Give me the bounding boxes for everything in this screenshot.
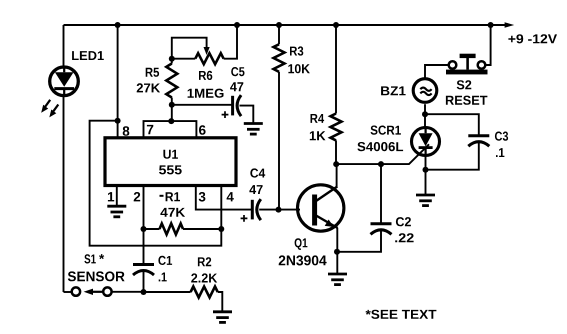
- LED1 light arrow lower: [49, 105, 58, 118]
- pin 1 label: [108, 192, 114, 201]
- LED1 body circle: [50, 67, 79, 96]
- thyristor SCR1 body circle: [412, 128, 440, 156]
- node rail junction to R6: [234, 22, 240, 28]
- label 27K: [137, 83, 160, 92]
- label C2: [396, 217, 411, 226]
- label C5: [231, 67, 244, 76]
- wire R1 leads: [144, 228, 222, 230]
- label 2.2K: [191, 273, 217, 282]
- pin 2 label: [134, 192, 141, 201]
- node pin2 / R1 left junction: [141, 226, 147, 232]
- switch S1 right terminal: [103, 287, 111, 295]
- wire Q1 emitter down: [336, 228, 338, 252]
- wire R5 bottom to pins7-6 node: [171, 98, 173, 122]
- label +9 -12V supply: [508, 34, 557, 43]
- label S4006L: [357, 142, 403, 151]
- pin 7 label: [147, 125, 153, 134]
- label 10K: [288, 64, 310, 73]
- wire pin 4 stub to R1 right: [220, 186, 222, 230]
- Q1 emitter stroke: [316, 216, 338, 229]
- switch S1 left terminal: [72, 287, 80, 295]
- note *SEE TEXT: [366, 310, 437, 319]
- capacitor C4 47 body: [251, 200, 254, 220]
- node R5 bottom / C5 junction: [169, 102, 175, 108]
- buzzer BZ1 body circle: [413, 79, 437, 103]
- label 555: [159, 165, 182, 174]
- BZ1 tone symbol: [420, 88, 431, 96]
- label C4: [250, 168, 265, 177]
- label S1: [84, 254, 95, 263]
- label SCR1: [371, 126, 401, 135]
- label 1MEG: [188, 89, 224, 98]
- label RESET: [446, 96, 488, 105]
- S1 arrow shaft: [92, 291, 103, 293]
- switch S2 left terminal: [449, 61, 457, 69]
- wire R2 right to ground: [218, 292, 223, 312]
- label R2: [198, 257, 211, 266]
- node C1 / sensor-line junction: [141, 289, 147, 295]
- wire rail corner down to LED1: [63, 25, 65, 67]
- LED1 diode triangle: [55, 72, 74, 87]
- LED1 cathode bar: [54, 87, 74, 90]
- label S2: [457, 80, 472, 89]
- label S1 asterisk: [99, 254, 104, 259]
- Q1 collector stroke: [316, 187, 337, 202]
- wire C2 top lead: [380, 164, 382, 224]
- node rail junction to S2: [488, 22, 494, 28]
- wire C4 to Q1 base: [259, 209, 300, 211]
- node emitter / C2 return junction: [334, 249, 340, 255]
- ground below Q1 emitter: [328, 273, 347, 276]
- label 1K: [310, 131, 326, 140]
- wire Q1 collector up to gate node: [336, 164, 338, 187]
- LED1 light arrow upper: [41, 100, 50, 113]
- ground below C5: [244, 122, 263, 125]
- resistor R5 27K body: [166, 64, 177, 98]
- label R4: [311, 114, 325, 123]
- resistor R2 2.2K body: [191, 287, 218, 298]
- C4 plus sign: [241, 215, 248, 222]
- wire rail to U1 pin 8: [117, 25, 119, 138]
- wire C2 bottom to emitter node: [337, 230, 381, 252]
- pin 4 label: [227, 192, 234, 201]
- node rail junction to pin 8: [115, 22, 121, 28]
- label R3: [290, 46, 303, 55]
- wire pin 2 down to C1: [143, 186, 145, 265]
- label R1: [166, 192, 180, 201]
- SCR1 internal stems: [425, 129, 427, 154]
- C5 plus sign: [222, 111, 229, 118]
- wire R6 left end to R5 top node: [172, 58, 196, 60]
- Q1 emitter arrowhead: [325, 220, 334, 227]
- node pin7-6 bracket junction: [168, 118, 174, 124]
- wire C5 to ground: [240, 106, 254, 123]
- R1 label dash: [160, 195, 164, 197]
- label LED1: [72, 51, 104, 60]
- ground below pin 1: [107, 205, 126, 208]
- Q1 base bar: [312, 195, 317, 226]
- label Q1: [295, 238, 308, 250]
- wire sensor line to R2: [112, 291, 191, 293]
- label SENSOR: [68, 271, 125, 281]
- switch S2 right terminal: [478, 61, 486, 69]
- ground below SCR1: [416, 194, 435, 197]
- label R6: [199, 71, 212, 80]
- wire pin8 junction to reset pull run: [90, 121, 222, 246]
- IC U1 555 body: [105, 138, 236, 186]
- resistor R4 1K body: [331, 114, 342, 141]
- wire LED1 cathode down to sensor line: [63, 95, 65, 292]
- wire pin 1 stub: [116, 186, 118, 206]
- node rail junction to R3: [276, 22, 282, 28]
- R3 leads: [278, 25, 280, 210]
- label 47K: [160, 208, 185, 217]
- node rail junction to R4: [333, 22, 339, 28]
- pin 3 label: [199, 192, 206, 202]
- wire BZ1 bottom to SCR anode: [424, 104, 426, 128]
- resistor R3 10K body: [274, 44, 285, 72]
- LED1 internal stems: [63, 67, 65, 95]
- label C3: [495, 132, 508, 141]
- SCR1 cathode bar: [419, 146, 433, 149]
- wire pins 7-6 tie bracket: [144, 121, 197, 138]
- capacitor C1 .1 body: [133, 263, 154, 266]
- node R5 top / R6 left junction: [169, 56, 175, 62]
- label U1: [163, 150, 178, 159]
- node pin8 / reset-feed junction: [115, 118, 121, 124]
- capacitor C2 .22 body: [371, 222, 392, 225]
- SCR1 triangle: [419, 133, 433, 146]
- node collector / R4 / gate junction: [333, 161, 339, 167]
- wire +V top supply rail: [64, 24, 508, 26]
- pin 6 label: [199, 125, 206, 135]
- S2 bridge contact bar: [446, 70, 488, 75]
- wire rail down to R6 right end: [224, 25, 237, 59]
- S2 button cap: [460, 54, 476, 58]
- wire R6 wiper loop: [172, 38, 207, 59]
- potentiometer R6 1MEG body: [195, 53, 223, 64]
- wire R5 junction to C5 plus plate: [172, 104, 232, 106]
- resistor R1 47K body: [160, 224, 184, 235]
- wire junction to C3 top: [425, 114, 479, 135]
- label C1: [158, 256, 172, 265]
- wire sensor line left segment: [64, 291, 72, 293]
- wire SCR cathode down to ground: [425, 154, 427, 195]
- wire emitter node to ground: [336, 252, 338, 274]
- R6 wiper arrowhead: [204, 47, 210, 55]
- wire S2 right to rail: [485, 25, 490, 65]
- R4 leads: [335, 25, 337, 164]
- node C2 top junction: [378, 161, 384, 167]
- pin 8 label: [123, 126, 130, 136]
- wire pin 3 output run to C4: [196, 186, 252, 210]
- label 2N3904: [279, 255, 327, 265]
- wire C1 bottom to sensor line: [143, 271, 145, 292]
- node SCR cathode / C3 return junction: [423, 167, 429, 173]
- node BZ1 / SCR / C3 junction: [422, 111, 428, 117]
- wire gate run to SCR: [336, 144, 429, 164]
- label C2 value .22: [395, 233, 413, 242]
- ground below R2: [213, 310, 232, 313]
- label BZ1: [381, 86, 406, 95]
- capacitor C3 .1 body: [468, 134, 489, 137]
- supply arrowhead +9-12V terminal: [505, 22, 515, 28]
- capacitor C5 47 body: [231, 96, 234, 116]
- node R3 bottom / Q1 base junction: [276, 207, 282, 213]
- label C5 value 47: [230, 82, 243, 91]
- transistor Q1 body circle: [298, 185, 344, 231]
- wire BZ1 top to S2: [425, 65, 449, 79]
- S1 arrowhead: [84, 289, 93, 295]
- wire R5 top stub: [171, 59, 173, 64]
- label R5: [146, 68, 159, 77]
- node R1 right / pin4 / reset junction: [218, 226, 224, 232]
- wire C3 bottom to cathode node: [426, 142, 479, 170]
- label C4 value 47: [249, 185, 262, 194]
- label C3 value .1: [496, 148, 504, 157]
- label C1 value .1: [159, 273, 167, 282]
- S2 actuator stem: [466, 58, 469, 70]
